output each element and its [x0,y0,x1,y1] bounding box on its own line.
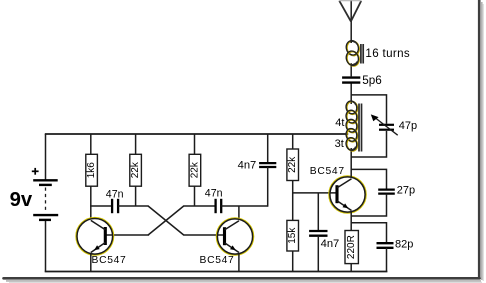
wire top supply rail [45,133,348,135]
wire 22k2 bottom [194,186,196,206]
capacitor C1 47n [112,199,118,213]
wire 4n7bot lower [317,236,319,272]
svg-text:4n7: 4n7 [238,159,257,171]
wire crossing diagonal B [148,206,184,235]
resistor R5 15k [287,220,299,251]
transistor Q3 BC547 [329,176,366,213]
capacitor C8 82p [377,243,394,248]
inductor L2 tank coil 4t 3t [345,100,359,152]
wire Q2 collector up [238,206,240,220]
wire Q3 collector up [350,148,352,178]
wire 4n7bot upper [317,193,319,231]
svg-text:3t: 3t [335,138,344,150]
capacitor C6 47p trimmer [379,125,394,130]
battery B1 cell2 long plate [33,214,58,216]
svg-text:BC547: BC547 [92,255,127,266]
transistor Q1 BC547 [76,217,114,255]
svg-text:47n: 47n [205,188,223,200]
wire tank top link [351,95,386,124]
wire Q1 emitter down [90,254,92,272]
wire Q3 emitter down [350,212,352,231]
wire antenna lead [350,0,352,43]
svg-text:220R: 220R [346,235,357,259]
svg-text:47p: 47p [399,120,417,132]
wire C2 to Q2 collector node [221,205,267,207]
transistor Q2 BC547 [216,218,253,255]
wire 4n7top upper [267,134,269,163]
trimmer arrow [374,117,398,135]
svg-text:5p6: 5p6 [362,74,382,87]
resistor R1 1k6 [86,154,98,186]
wire 4n7top lower [267,167,269,207]
wire tank bottom link [351,131,386,157]
wire 5p6 to tank [350,83,352,104]
svg-text:BC547: BC547 [200,255,235,266]
wire coil16 to 5p6 [350,63,352,77]
inductor L2 core [358,104,360,152]
capacitor C5 5p6 [342,78,360,83]
wire bottom ground rail [45,271,388,273]
wire crossing to C2 [183,205,215,207]
battery B1 9v plus sign [32,170,39,172]
wire Q2 emitter down [238,254,240,272]
wire 27p top link [351,169,386,189]
svg-text:15k: 15k [287,227,298,244]
antenna ANT1 [339,1,351,22]
capacitor C2 47n [216,199,222,213]
wire battery negative lead [45,221,47,272]
inductor L1 core [360,44,362,64]
wire Q1 collector to C1 lead [90,205,112,207]
resistor R3 22k [189,154,201,186]
svg-text:1k6: 1k6 [86,162,97,179]
resistor R2 22k [130,154,142,186]
wire 22k2 top [194,134,196,155]
svg-text:47n: 47n [106,188,124,200]
wire 220R bottom [350,263,352,271]
svg-text:22k: 22k [287,156,298,173]
inductor L1 16 turns coil [345,39,361,67]
wire battery positive lead [45,134,47,180]
wire 15k bottom [292,251,294,272]
wire 82p bottom [386,248,388,272]
battery B1 cell2 short plate [39,219,51,221]
wire crossing diagonal A [148,206,184,235]
wire Q1 base lead [106,234,150,236]
wire 1k6 bottom to Q1 collector [90,186,92,219]
wire Q2 base lead [183,234,224,236]
battery B1 cell1 short plate [39,184,52,186]
wire 15k top [292,193,294,221]
resistor R4 22k [287,149,299,181]
svg-text:82p: 82p [395,239,413,251]
wire 27p bottom link [351,194,386,216]
svg-text:22k: 22k [189,161,200,178]
resistor R6 220R [345,231,358,264]
wire osc base lead [292,192,337,194]
svg-text:BC547: BC547 [310,166,345,177]
battery B1 cell1 long plate [33,179,58,181]
capacitor C4 4n7 [309,231,327,236]
svg-text:4t: 4t [335,117,344,129]
wire emitter to 82p link [351,223,386,243]
wire 1k6 top [90,134,92,155]
wire 22k1 bottom [135,186,137,206]
wire 22k3 bottom [292,180,294,193]
wire 22k3 top [292,134,294,149]
svg-text:22k: 22k [130,161,141,178]
svg-text:4n7: 4n7 [321,238,340,250]
capacitor C3 4n7 [259,163,276,167]
battery B1 dashed link [45,188,47,213]
capacitor C7 27p [378,190,395,194]
wire C1 to crossing [118,205,148,207]
svg-text:16 turns: 16 turns [365,47,410,60]
svg-text:9v: 9v [10,189,33,211]
svg-text:27p: 27p [397,185,415,197]
wire 22k1 top [135,134,137,155]
